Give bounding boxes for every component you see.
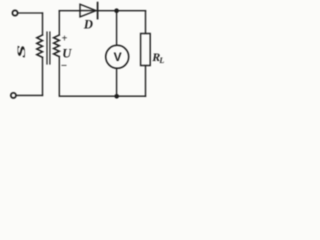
transformer secondary winding bbox=[54, 35, 60, 57]
wire bottom-left horizontal bbox=[16, 94, 42, 96]
terminal (input, top-left) bbox=[12, 10, 17, 15]
wire primary top vertical bbox=[42, 13, 44, 35]
svg-text:V: V bbox=[114, 50, 122, 64]
svg-text:+: + bbox=[62, 33, 68, 44]
transformer core bbox=[46, 32, 48, 64]
wire top rail right bbox=[117, 10, 146, 12]
voltmeter branch wire top bbox=[116, 11, 118, 45]
node junction top bbox=[114, 8, 119, 13]
transformer primary winding bbox=[37, 35, 43, 57]
voltmeter V bbox=[106, 45, 129, 68]
wire resistor bottom bbox=[145, 66, 147, 97]
bottom rail bbox=[59, 57, 145, 97]
wire down to resistor bbox=[145, 11, 147, 34]
voltmeter branch wire bottom bbox=[116, 69, 118, 96]
svg-text:S: S bbox=[15, 45, 28, 58]
node junction bottom bbox=[114, 94, 119, 99]
svg-text:L: L bbox=[158, 56, 164, 65]
diode D bbox=[80, 4, 96, 17]
svg-text:D: D bbox=[83, 18, 93, 32]
wire secondary top vertical bbox=[58, 11, 60, 35]
wire primary bottom vertical bbox=[42, 57, 44, 95]
wire top-left horizontal bbox=[18, 12, 43, 14]
wire diode to junction bbox=[98, 10, 117, 12]
resistor RL (box) bbox=[141, 34, 151, 66]
terminal (input, bottom-left) bbox=[11, 93, 16, 98]
wire top rail to diode bbox=[59, 10, 80, 12]
svg-text:U: U bbox=[62, 47, 72, 61]
svg-text:−: − bbox=[61, 60, 67, 72]
